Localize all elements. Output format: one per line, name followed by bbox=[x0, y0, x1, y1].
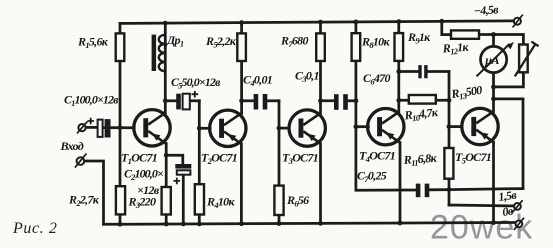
junction T1 base bbox=[118, 125, 123, 130]
junction R10 right on T5 base column bbox=[447, 98, 452, 103]
junction C5 tap on T1 collector bbox=[163, 98, 168, 103]
resistor R2 body bbox=[116, 186, 125, 214]
wire: C6 left lead bbox=[399, 70, 419, 73]
junction C3/T4 base column bbox=[354, 98, 359, 103]
resistor R13 body bbox=[519, 45, 528, 73]
capacitor C2 top plate (black) bbox=[175, 164, 191, 169]
svg-text:R22,7к: R22,7к bbox=[68, 193, 100, 209]
wire: C2 top tap from emitter bbox=[166, 155, 183, 164]
wire: C1 to T1 base bbox=[105, 126, 135, 129]
junction C4 tap on T2 collector bbox=[239, 98, 244, 103]
wire: meter bottom lead / T5 collector riser bbox=[492, 72, 495, 111]
svg-text:T1ОС71: T1ОС71 bbox=[121, 151, 157, 167]
wire: R5 / T2 collector riser bbox=[240, 23, 243, 114]
capacitor C7 plates bbox=[416, 184, 421, 198]
wire: T2 base lead bbox=[199, 127, 210, 130]
wire: T3 base column with R6 bbox=[278, 101, 281, 224]
wire: C6 right lead bbox=[427, 70, 449, 73]
resistor R9 body bbox=[395, 33, 404, 61]
capacitor C5 plus sign bbox=[192, 91, 199, 98]
svg-text:R52,2к: R52,2к bbox=[205, 34, 237, 50]
capacitor C3 plates bbox=[334, 94, 339, 110]
terminal input top bbox=[77, 121, 87, 133]
wire: line A to right vertical bbox=[449, 189, 523, 190]
junction C3 tap on T3 collector bbox=[318, 98, 323, 103]
wire: input terminal 1 to C1 bbox=[86, 126, 99, 129]
capacitor C1 positive plate (black) bbox=[105, 119, 111, 137]
svg-text:R810к: R810к bbox=[361, 35, 390, 51]
junction top rail at R5 bbox=[239, 20, 244, 25]
inductor Dr1 winding bbox=[159, 35, 166, 71]
capacitor C5 black plate bbox=[176, 94, 181, 110]
meter uA bbox=[477, 42, 514, 77]
wire: T2 base column with R4 bbox=[198, 101, 201, 224]
junction T3 base bbox=[277, 126, 282, 131]
junction bottom rail at T3 emitter bbox=[318, 221, 323, 226]
wire: C3 left lead bbox=[321, 99, 335, 102]
svg-text:C30,1: C30,1 bbox=[295, 69, 319, 85]
wire: R8 / T4 base column down to C7 bbox=[356, 22, 417, 190]
resistor R3 body bbox=[162, 187, 171, 215]
wire: R12 branch from rail bbox=[442, 21, 452, 34]
capacitor C2 bottom plate (white) bbox=[177, 170, 191, 174]
junction C2 tap on T1 emitter bbox=[164, 153, 169, 158]
capacitor C1 negative plate (white) bbox=[98, 120, 103, 137]
wire: C4 left lead bbox=[242, 99, 255, 102]
wire: R10 row between risers bbox=[399, 99, 449, 102]
terminal -4.5v bbox=[513, 15, 523, 28]
wire: T4 base lead bbox=[356, 125, 368, 128]
wire: Dr1 choke riser / T1 collector bbox=[164, 23, 167, 113]
resistor R4 body bbox=[195, 184, 204, 214]
transistor T2 bbox=[210, 110, 246, 146]
wire: T3 base lead bbox=[279, 127, 289, 130]
terminal input bottom bbox=[75, 154, 87, 168]
junction R11 bottom / line A bbox=[447, 187, 452, 192]
junction bottom rail at R4 bbox=[197, 222, 202, 227]
svg-text:Рис. 2: Рис. 2 bbox=[12, 220, 57, 237]
svg-text:T2ОС71: T2ОС71 bbox=[201, 151, 237, 167]
svg-text:1,5в: 1,5в bbox=[497, 187, 518, 203]
junction bottom rail at T2 emitter bbox=[239, 221, 244, 226]
wire: T3 emitter drop bbox=[319, 144, 322, 224]
junction meter bottom / R13 bbox=[491, 85, 496, 90]
svg-text:Вход: Вход bbox=[60, 139, 84, 153]
svg-text:T3ОС71: T3ОС71 bbox=[282, 151, 318, 167]
junction bottom rail at T4 emitter bbox=[398, 221, 403, 226]
wire: line to 1,5v terminal bbox=[449, 204, 514, 208]
wire: C3 right lead bbox=[347, 99, 356, 102]
wire: input terminal 2 to ground corner bbox=[84, 161, 103, 224]
resistor R6 body bbox=[274, 186, 283, 215]
resistor R5 body bbox=[237, 33, 246, 61]
terminal 0v bbox=[514, 218, 524, 230]
wire: top supply rail bbox=[120, 21, 513, 24]
transistor T3 bbox=[289, 110, 325, 146]
wire: R13 bottom to meter column bbox=[494, 72, 524, 87]
wire: R1/T1-base/R2 column bbox=[119, 23, 122, 224]
wire: stub down to 1.5V line bbox=[448, 190, 451, 205]
svg-text:R7680: R7680 bbox=[280, 34, 308, 50]
wire: C4 right lead bbox=[267, 99, 280, 102]
junction top rail at R7 bbox=[318, 20, 323, 25]
wire: T4 emitter drop bbox=[399, 143, 402, 224]
resistor R1 body bbox=[116, 33, 125, 61]
capacitor C2 plus sign bbox=[174, 178, 181, 185]
wire: R7 / T3 collector riser bbox=[319, 22, 322, 113]
wire: meter top lead bbox=[492, 35, 495, 47]
wire: T5 base column with R11 bbox=[448, 72, 451, 190]
junction R10 left on T4 collector bbox=[396, 98, 401, 103]
wire: T5 base lead bbox=[449, 125, 462, 128]
svg-text:R410к: R410к bbox=[206, 195, 235, 211]
wire: C5 left lead bbox=[165, 99, 177, 102]
junction top rail at R9 bbox=[396, 19, 401, 24]
transistor T5 bbox=[462, 108, 498, 144]
junction T4 base bbox=[354, 124, 359, 129]
svg-text:R656: R656 bbox=[286, 193, 309, 209]
svg-text:C2100,0×: C2100,0× bbox=[124, 167, 164, 183]
wire: right vertical from meter bottom bbox=[522, 99, 525, 189]
svg-text:R3220: R3220 bbox=[128, 195, 156, 211]
junction bottom rail at R6 bbox=[277, 221, 282, 226]
svg-text:C40,01: C40,01 bbox=[243, 73, 272, 89]
wire: T1 emitter drop to R3 bbox=[165, 143, 168, 224]
wire: T5 emitter drop bbox=[492, 142, 495, 222]
svg-text:T4ОС71: T4ОС71 bbox=[359, 149, 395, 165]
svg-text:T5ОС71: T5ОС71 bbox=[455, 150, 491, 166]
junction T5 collector / right vertical bbox=[491, 97, 496, 102]
svg-text:R91к: R91к bbox=[407, 30, 431, 46]
wire: R12 right to R13 top corner bbox=[479, 35, 524, 46]
transistor T4 bbox=[368, 109, 404, 145]
resistor R10 body bbox=[409, 95, 436, 104]
junction top rail at R12 branch bbox=[439, 19, 444, 24]
junction C6 left bbox=[396, 69, 401, 74]
svg-text:C70,25: C70,25 bbox=[357, 169, 387, 185]
svg-text:C6470: C6470 bbox=[363, 71, 390, 87]
capacitor C5 white plate bbox=[183, 94, 190, 110]
svg-text:−4,5в: −4,5в bbox=[473, 2, 499, 18]
resistor R8 body bbox=[352, 33, 361, 61]
resistor R7 body bbox=[316, 33, 325, 61]
wire: C2 bottom lead bbox=[182, 175, 185, 224]
wire: meter column to right vertical bbox=[494, 98, 524, 101]
junction top rail at Dr1 bbox=[163, 21, 168, 26]
resistor R11 body bbox=[444, 148, 453, 179]
junction bottom rail at R2 bbox=[118, 222, 123, 227]
resistor R12 body bbox=[451, 30, 479, 38]
terminal 1,5v bbox=[512, 200, 522, 212]
capacitor C4 plates bbox=[254, 94, 259, 110]
wire: R9 / T4 collector riser bbox=[397, 22, 400, 112]
inductor Dr1 core bar bbox=[152, 35, 157, 71]
junction bottom rail at R3 bbox=[164, 222, 169, 227]
wire: C5 right lead bbox=[190, 99, 200, 102]
capacitor C1 plus sign bbox=[88, 118, 95, 125]
transistor T1 bbox=[134, 110, 170, 146]
wire: bottom ground rail bbox=[104, 223, 516, 225]
svg-text:R15,6к: R15,6к bbox=[77, 35, 109, 51]
junction top rail at R8 bbox=[354, 20, 359, 25]
junction T5 base bbox=[447, 124, 452, 129]
wire: T2 emitter drop bbox=[240, 144, 243, 224]
junction bottom rail at T5 emitter bbox=[491, 220, 496, 225]
junction T2 base bbox=[197, 126, 202, 131]
junction bottom rail at C2 bbox=[181, 222, 186, 227]
variable arrow of R13 bbox=[515, 42, 539, 77]
wire: C7 right lead to R11 bottom junction bbox=[429, 188, 449, 191]
junction meter top bbox=[491, 32, 496, 37]
capacitor C6 plates bbox=[418, 65, 421, 78]
